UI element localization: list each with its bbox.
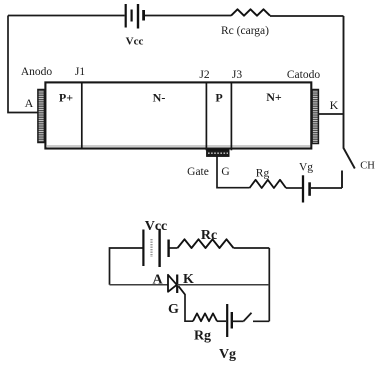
wire — [185, 294, 193, 321]
svg-text:N-: N- — [153, 91, 166, 105]
wire — [234, 247, 270, 249]
wire — [270, 15, 344, 17]
svg-text:Vcc: Vcc — [126, 36, 144, 48]
svg-text:G: G — [221, 166, 229, 178]
svg-text:Gate: Gate — [187, 166, 209, 178]
wire — [286, 187, 302, 189]
wire — [110, 284, 168, 286]
battery Vcc (equivalent circuit) — [143, 229, 168, 267]
svg-text:P+: P+ — [59, 91, 73, 105]
svg-text:A: A — [25, 96, 34, 110]
wire — [170, 247, 178, 249]
wire — [253, 320, 269, 322]
wire — [341, 171, 343, 189]
thyristor SCR — [168, 275, 185, 295]
wire — [233, 320, 244, 322]
wire — [145, 15, 231, 17]
inner bottom line of body — [46, 145, 310, 147]
resistor Rg (equivalent circuit) — [193, 313, 217, 321]
wire — [110, 248, 143, 285]
wire — [318, 113, 343, 115]
svg-text:Vg: Vg — [299, 162, 313, 174]
svg-text:N+: N+ — [266, 90, 282, 104]
wire — [343, 16, 345, 149]
svg-text:K: K — [330, 98, 339, 112]
svg-text:J2: J2 — [199, 69, 209, 81]
svg-text:A: A — [152, 273, 163, 288]
cathode electrode — [312, 90, 318, 144]
svg-text:Rg: Rg — [256, 168, 270, 180]
resistor Rc — [231, 9, 270, 15]
wire — [217, 320, 226, 322]
wire — [8, 15, 125, 17]
switch CH — [344, 148, 355, 169]
junction J2 — [205, 82, 207, 150]
junction J1 — [81, 82, 83, 148]
battery Vcc — [126, 4, 144, 29]
wire — [8, 16, 38, 113]
svg-text:G: G — [168, 302, 179, 317]
resistor Rc (equivalent circuit) — [178, 239, 234, 248]
svg-text:J1: J1 — [75, 66, 85, 78]
svg-text:Rc: Rc — [201, 228, 217, 243]
wire — [217, 156, 250, 188]
svg-text:Vg: Vg — [219, 347, 236, 362]
semiconductor body — [45, 82, 311, 148]
svg-text:Catodo: Catodo — [287, 69, 320, 81]
battery Vg — [303, 175, 310, 202]
junction J3 — [230, 82, 232, 150]
svg-text:Rg: Rg — [194, 329, 211, 344]
svg-text:P: P — [215, 91, 222, 105]
svg-text:Vcc: Vcc — [145, 219, 168, 234]
anode electrode — [38, 90, 45, 143]
svg-text:CH: CH — [360, 161, 375, 172]
svg-text:Anodo: Anodo — [21, 66, 53, 78]
gate electrode — [207, 150, 229, 156]
wire — [177, 284, 269, 286]
wire — [268, 248, 270, 321]
battery Vg (equivalent circuit) — [227, 304, 232, 337]
resistor Rg — [250, 180, 287, 188]
svg-text:Rc (carga): Rc (carga) — [221, 25, 269, 37]
svg-text:J3: J3 — [232, 69, 242, 81]
switch (equivalent circuit) — [244, 313, 252, 322]
wire — [311, 187, 342, 189]
